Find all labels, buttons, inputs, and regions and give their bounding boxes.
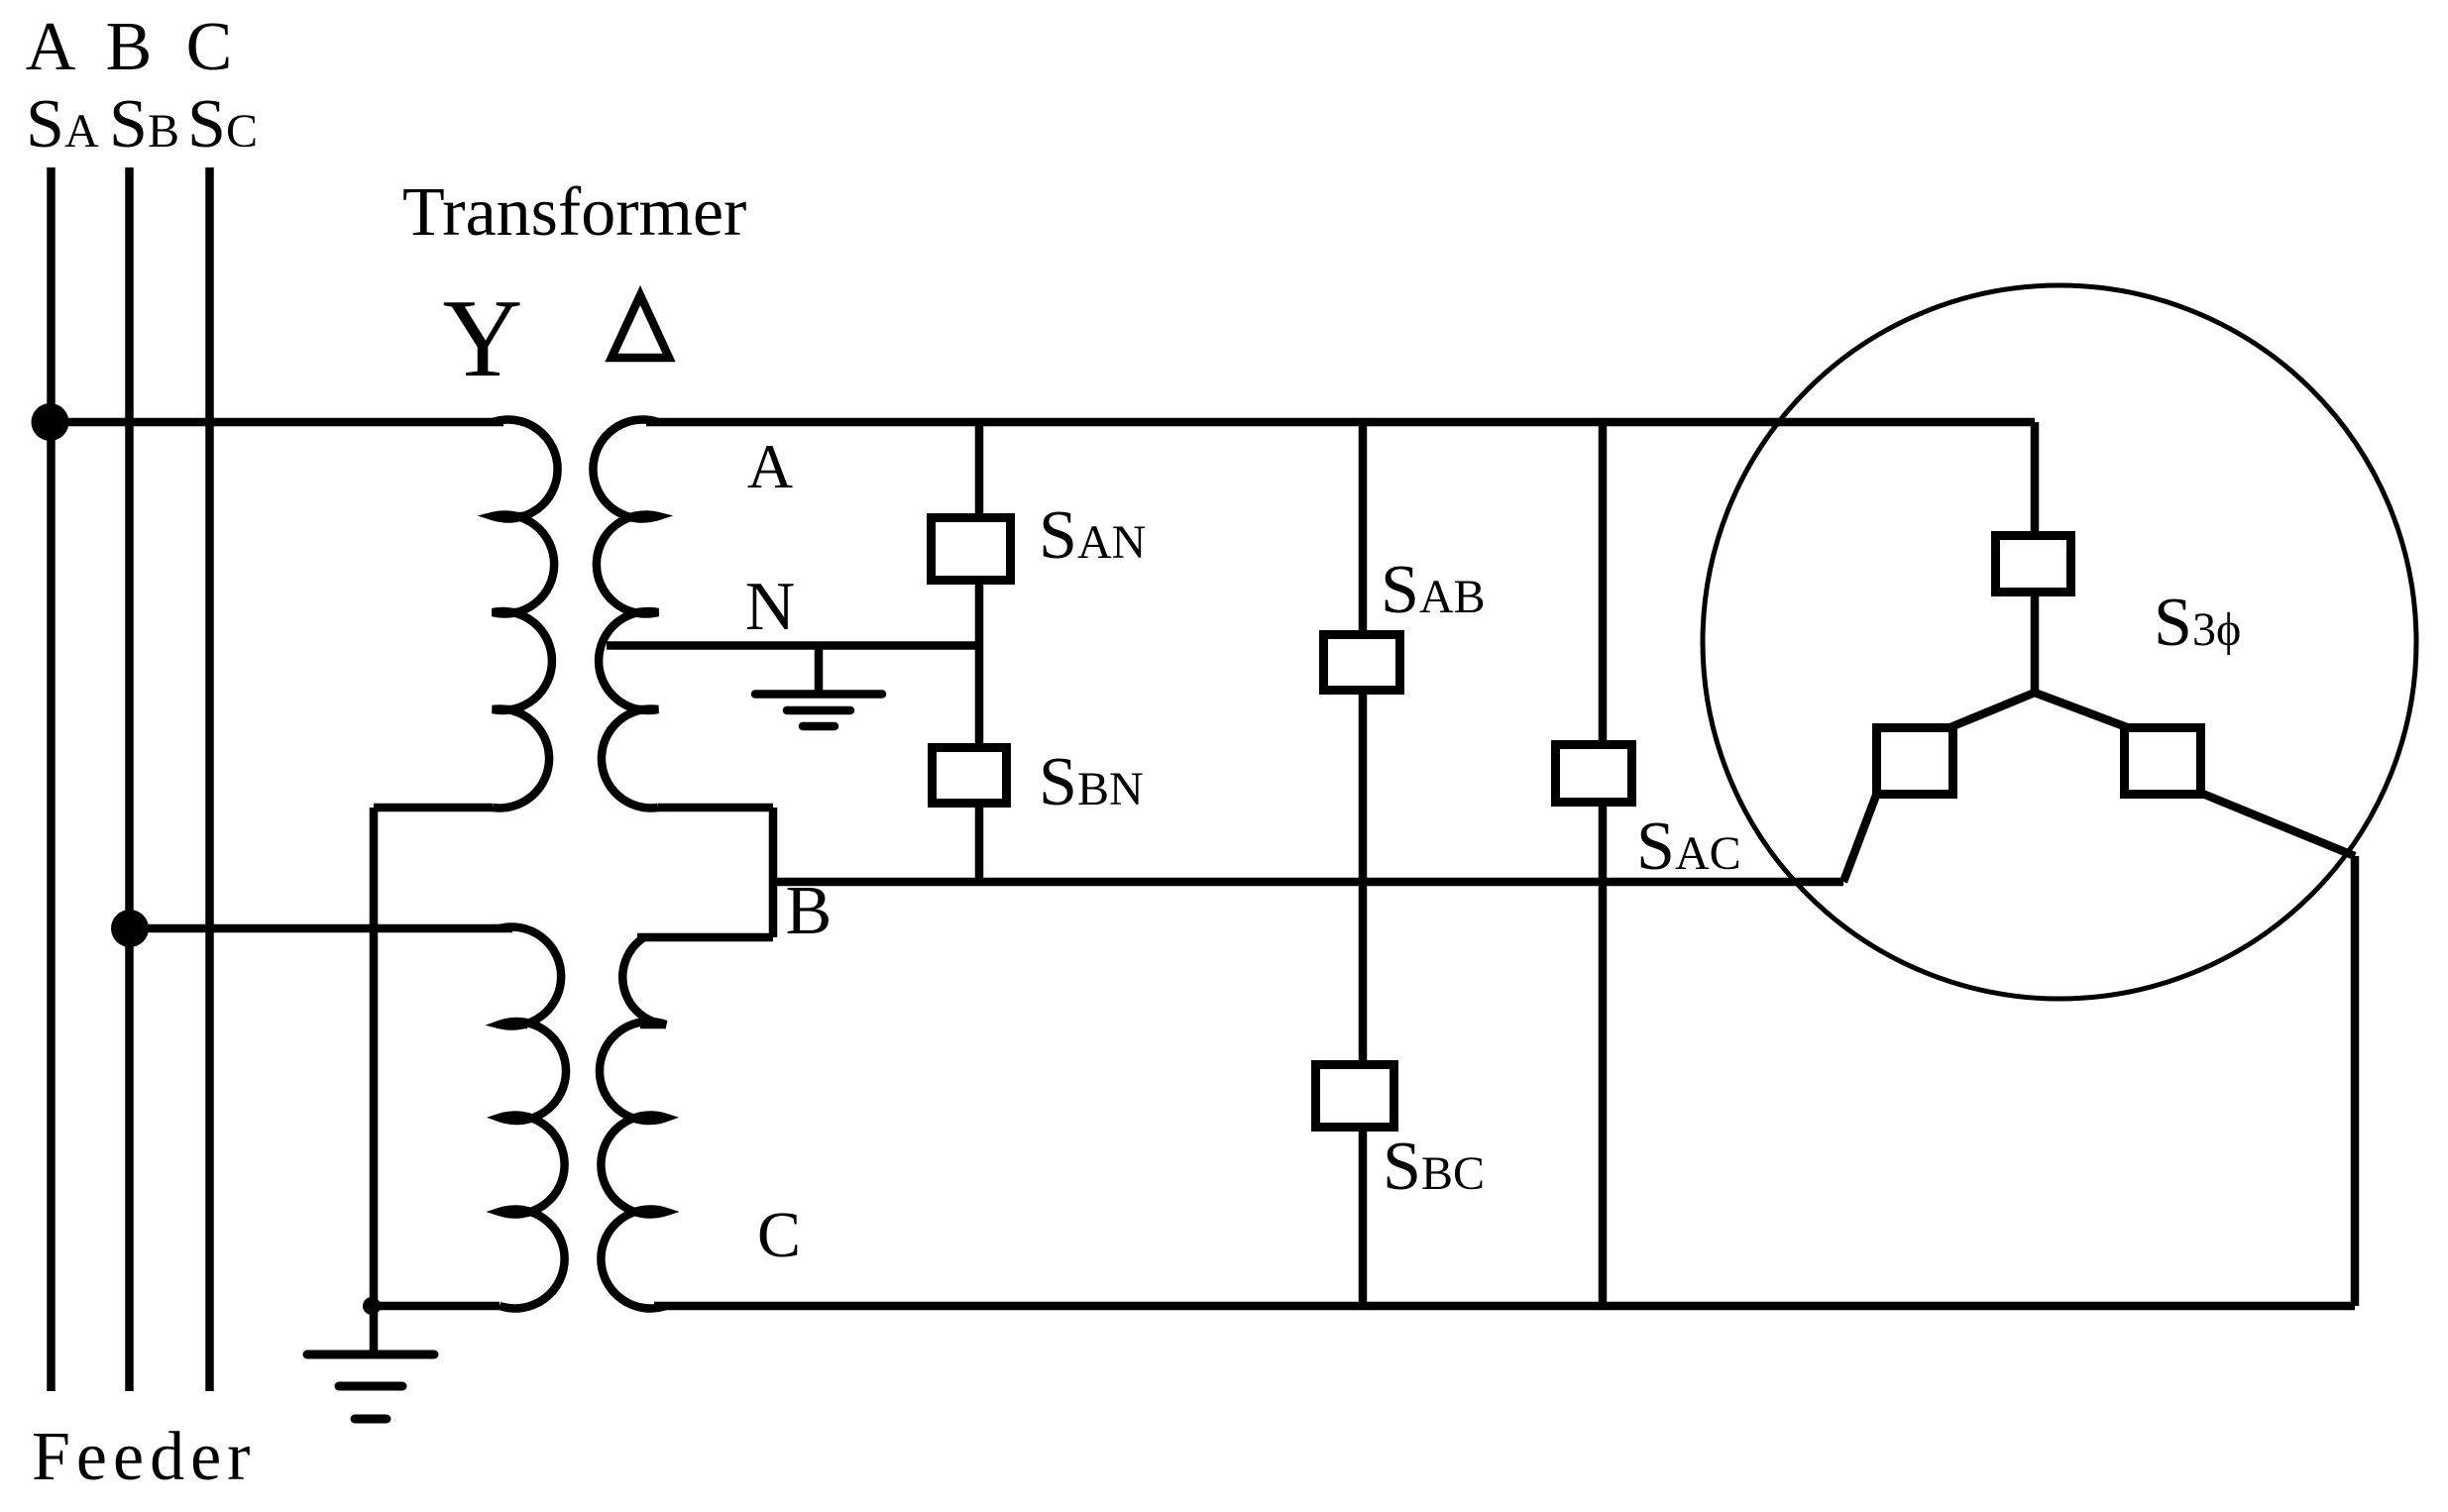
wire neutral N line — [607, 641, 979, 650]
switch S3phi phase C (right) — [2125, 728, 2201, 795]
svg-text:B: B — [106, 9, 153, 85]
wire feeder C vertical — [205, 167, 214, 1391]
wire bus B primary (feeder B to primary coil 2) — [130, 924, 513, 933]
wire star point to right load switch — [2035, 693, 2127, 727]
transformer primary winding 1 (wye, phase A) — [493, 419, 558, 808]
wire secondary 2 top exit — [637, 933, 773, 942]
transformer secondary winding 2 (delta side, B-C) — [600, 937, 666, 1308]
wire load phase A to star point — [2031, 592, 2040, 693]
transformer primary winding 2 (wye, phase B) — [500, 927, 566, 1309]
primary winding 1 cusp ticks — [493, 516, 524, 709]
svg-text:Transformer: Transformer — [402, 174, 746, 251]
svg-text:N: N — [745, 569, 796, 645]
junction dot feeder A / bus A — [32, 403, 69, 441]
wire switch column between SAB and SBC — [1359, 690, 1368, 1064]
primary winding 2 cusp ticks — [500, 1025, 527, 1212]
wire switch column AN/BN upper segment — [975, 422, 984, 517]
secondary winding 2 cusp ticks — [640, 1025, 666, 1212]
wire left load switch to bus B end — [1843, 793, 1877, 882]
ground (secondary neutral earth) — [755, 695, 882, 727]
wire switch column below SAC to bus C — [1599, 802, 1608, 1306]
switch SBN — [933, 748, 1007, 804]
wire switch column below SBN to bus B — [975, 803, 984, 882]
switch S3phi phase B (left) — [1877, 728, 1953, 795]
switch SAC — [1556, 745, 1632, 803]
svg-text:C: C — [757, 1199, 801, 1271]
wire bus C secondary — [654, 1302, 2355, 1311]
wire feeder B vertical — [125, 167, 134, 1391]
wire primary 2 bottom exit to neutral vertical — [374, 1302, 500, 1311]
three-phase load circle — [1703, 285, 2416, 999]
wire secondary 1 bottom exit to node B vertical — [658, 804, 773, 812]
wire bus B secondary — [773, 878, 1843, 887]
wire primary neutral vertical (to ground) — [370, 808, 379, 1352]
wire neutral ground stub — [815, 646, 824, 694]
svg-text:C: C — [186, 9, 233, 85]
ground (feeder neutral earth) — [307, 1354, 434, 1419]
junction dot neutral / primary 2 bottom — [363, 1297, 381, 1315]
wire switch column below SBC to bus C — [1359, 1127, 1368, 1306]
wire switch column AC upper segment — [1599, 422, 1608, 744]
wire right drop vertical to bus C — [2351, 856, 2360, 1306]
wire bus A left segment (feeder A to primary coil 1) — [52, 418, 504, 427]
switch SBC — [1316, 1065, 1394, 1128]
svg-text:Y: Y — [443, 277, 523, 400]
switch SAB — [1324, 635, 1400, 691]
wire star point to left load switch — [1950, 693, 2035, 727]
svg-text:A: A — [747, 431, 793, 501]
wire feeder A vertical — [47, 167, 56, 1391]
wire bus A right segment (secondary coil 1 to load circle corner) — [646, 418, 2035, 427]
svg-text:A: A — [26, 9, 76, 85]
wire switch column between SAN and SBN — [975, 580, 984, 747]
delta symbol (triangle) — [612, 295, 669, 358]
wire bus A corner down into load — [2031, 422, 2040, 535]
switch SAN — [932, 518, 1011, 581]
wire primary 1 bottom exit to neutral vertical — [374, 804, 493, 812]
switch S3phi phase A — [1996, 536, 2071, 593]
svg-text:Feeder: Feeder — [32, 1419, 256, 1495]
wire right load switch diagonal to drop — [2200, 793, 2355, 856]
wire node B vertical — [769, 808, 778, 937]
transformer secondary winding 1 (delta side, A-N-B) — [593, 420, 658, 809]
wire switch column AB/BC upper segment — [1359, 422, 1368, 634]
secondary winding 1 cusp ticks — [636, 516, 658, 709]
junction dot feeder B / bus B primary — [111, 910, 149, 947]
